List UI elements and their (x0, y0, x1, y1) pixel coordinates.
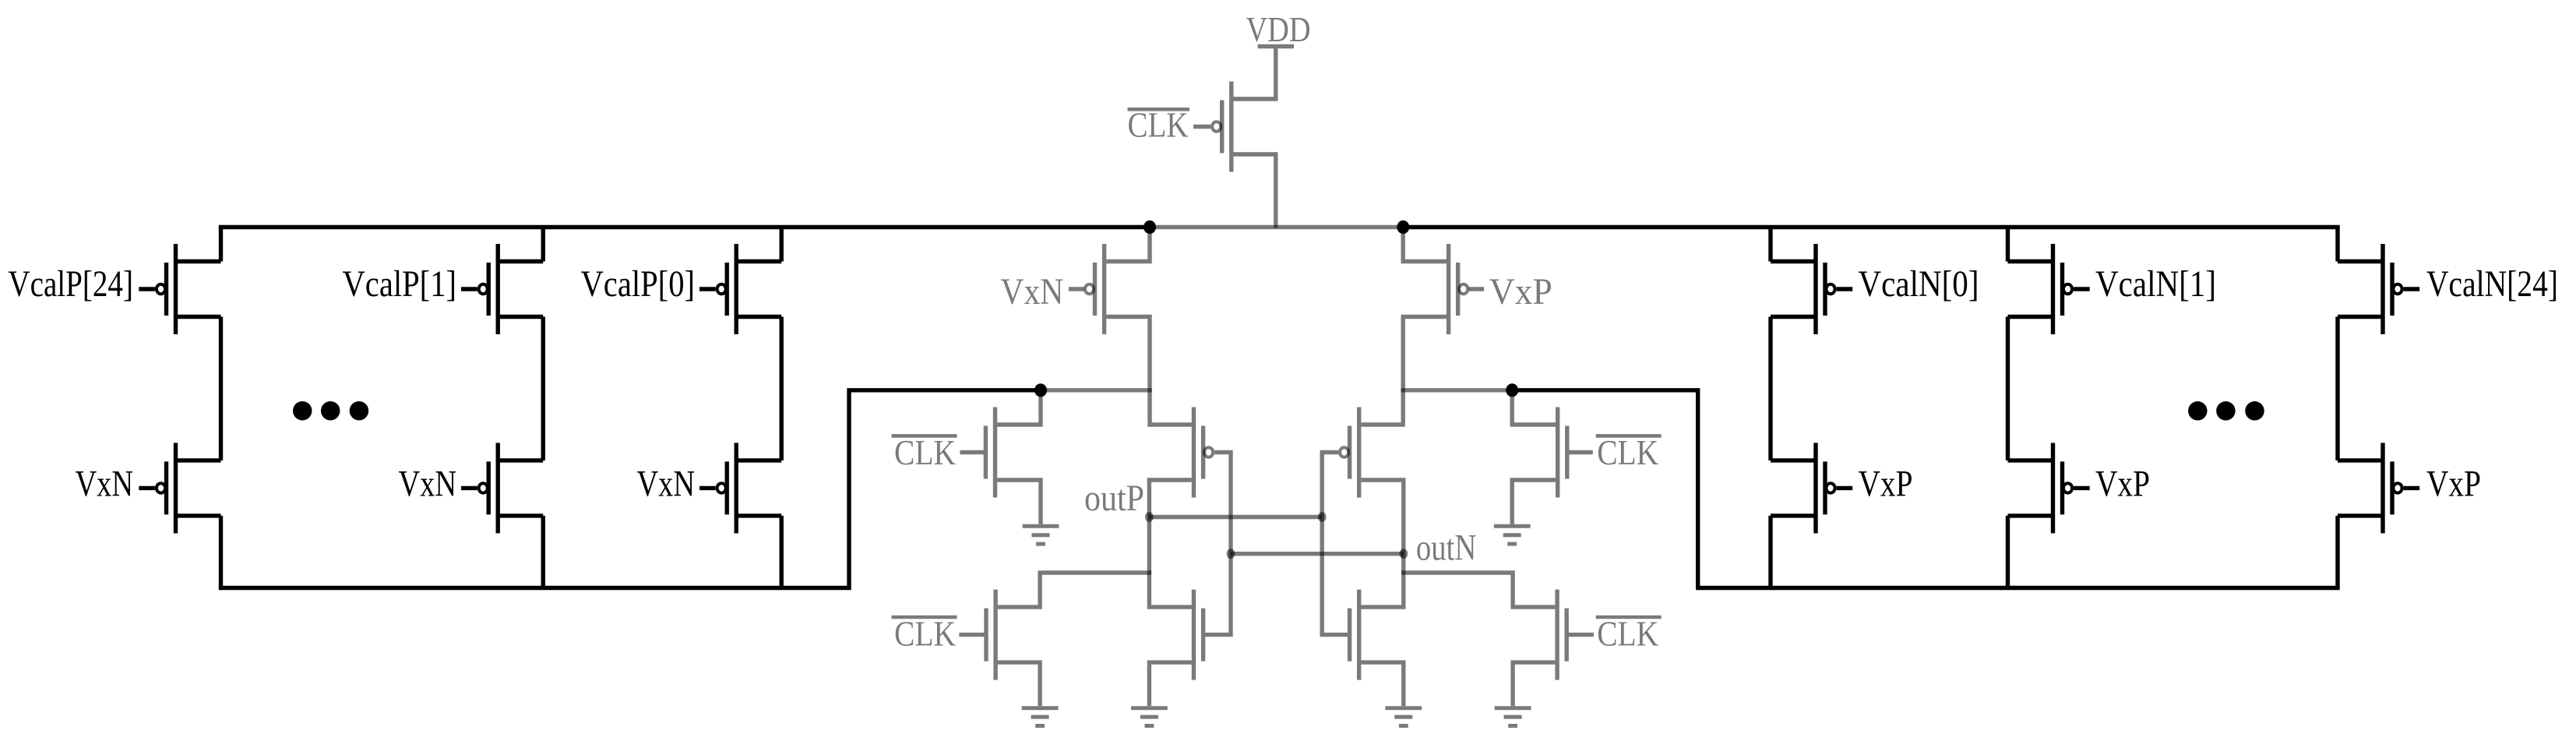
svg-text:VxN: VxN (399, 464, 457, 505)
svg-text:CLK: CLK (894, 614, 956, 654)
svg-text:VcalN[0]: VcalN[0] (1859, 263, 1979, 305)
svg-text:CLK: CLK (1597, 432, 1658, 472)
svg-text:VcalP[1]: VcalP[1] (343, 263, 457, 305)
svg-text:VxP: VxP (1489, 271, 1552, 312)
svg-text:VxN: VxN (637, 464, 696, 505)
svg-text:VxN: VxN (1000, 271, 1063, 312)
svg-text:CLK: CLK (894, 432, 956, 472)
svg-text:outN: outN (1416, 528, 1477, 569)
svg-text:VxP: VxP (2426, 464, 2481, 505)
svg-text:VxP: VxP (1859, 464, 1913, 505)
svg-text:CLK: CLK (1597, 614, 1658, 654)
svg-text:VcalP[0]: VcalP[0] (581, 263, 696, 305)
svg-text:VcalP[24]: VcalP[24] (8, 263, 133, 305)
svg-text:VcalN[24]: VcalN[24] (2426, 263, 2558, 305)
svg-text:VDD: VDD (1246, 9, 1311, 49)
svg-text:VcalN[1]: VcalN[1] (2095, 263, 2216, 305)
svg-text:VxN: VxN (76, 464, 134, 505)
svg-text:VxP: VxP (2095, 464, 2150, 505)
svg-text:outP: outP (1084, 478, 1144, 519)
